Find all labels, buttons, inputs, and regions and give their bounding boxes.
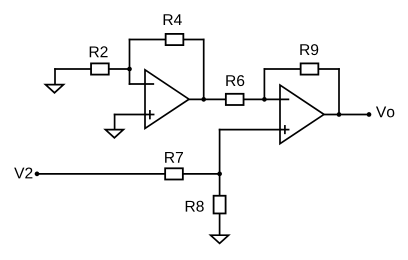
label R6: [226, 75, 244, 86]
label R7: [165, 152, 183, 163]
resistor R6: [226, 94, 244, 105]
label R8: [186, 201, 204, 212]
label R9: [300, 44, 318, 55]
resistor R2: [91, 63, 109, 74]
node C junction dot: [217, 172, 222, 177]
wire node A vertical: [129, 40, 131, 85]
wire U1 output through R6 to U2 inverting input: [189, 98, 289, 100]
op-amp U2: [280, 85, 324, 144]
ground G1: [46, 85, 64, 93]
node U2 output junction dot: [337, 112, 342, 117]
wire ground1 to R2 to node A: [55, 68, 130, 70]
label V2: [14, 168, 32, 179]
wire node C to U2 non-inverting input: [220, 129, 281, 131]
wire R9 top rail: [264, 68, 339, 70]
node A junction dot: [127, 67, 132, 72]
wire R4 top rail: [130, 39, 204, 41]
wire R8 to ground3: [219, 214, 221, 236]
wire ground2 stem: [114, 115, 116, 130]
node U1 output junction dot: [201, 97, 206, 102]
wire R9 feedback vertical: [338, 69, 340, 115]
wire node B vertical: [263, 69, 265, 99]
wire R4 feedback vertical: [203, 40, 205, 100]
op-amp U1: [145, 70, 189, 129]
wire U2 output to Vo: [324, 114, 370, 116]
label R2: [90, 46, 108, 57]
resistor R9: [301, 63, 319, 74]
resistor R7: [165, 168, 183, 179]
resistor R8: [214, 196, 226, 214]
terminal V2 dot: [35, 172, 40, 177]
wire node A to U1 inverting input: [130, 83, 154, 85]
resistor R4: [166, 34, 184, 45]
ground G2: [105, 130, 123, 138]
terminal Vo dot: [367, 112, 372, 117]
wire V2 through R7 to node C: [37, 173, 220, 175]
label Vo: [376, 106, 394, 117]
wire node C vertical: [219, 130, 221, 196]
label R4: [164, 14, 182, 25]
wire ground1 stem: [54, 69, 56, 85]
ground G3: [211, 235, 229, 243]
node B junction dot: [262, 97, 267, 102]
wire ground2 to U1 non-inverting input: [115, 114, 146, 116]
